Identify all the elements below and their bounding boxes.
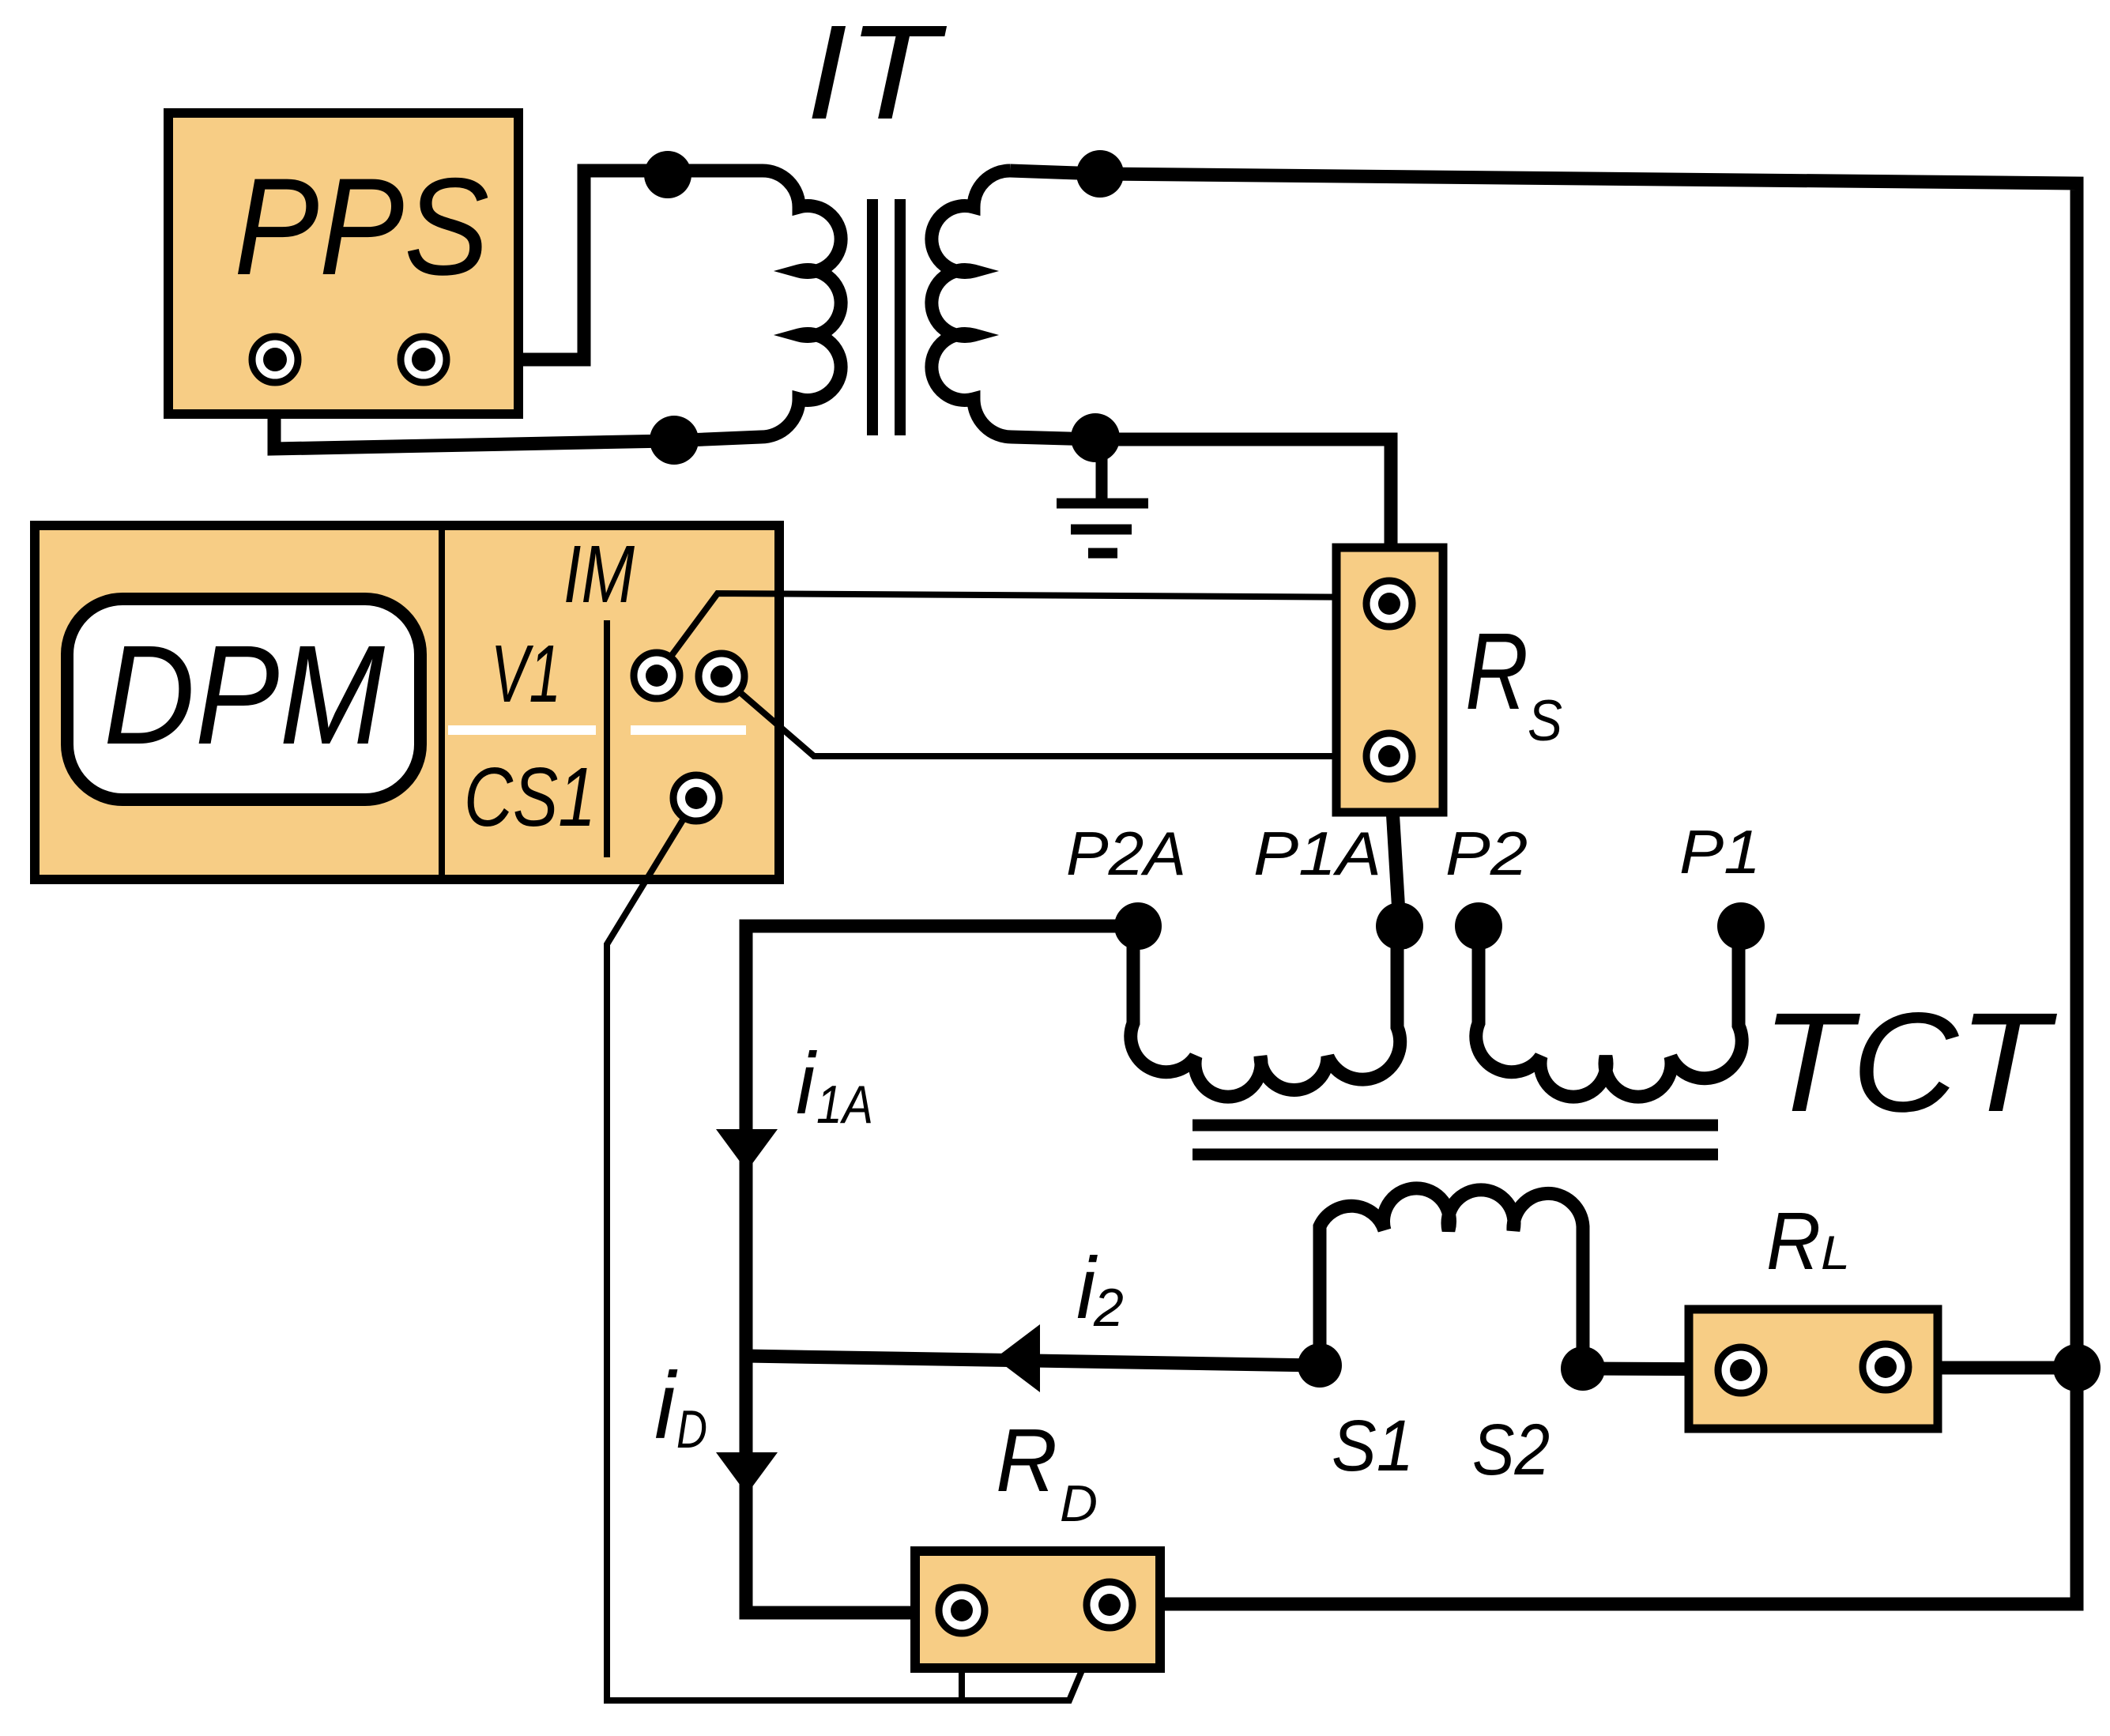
svg-text:S1: S1 xyxy=(1332,1406,1414,1486)
transformer TCT primary coil B (P2-P1) xyxy=(1476,926,1742,1097)
junction top right xyxy=(1076,150,1124,198)
transformer IT secondary coil and wire to RS xyxy=(932,171,1391,604)
terminal PPS right xyxy=(401,337,446,382)
arrow i1A xyxy=(716,1129,778,1171)
label i1A xyxy=(796,1035,873,1135)
transformer TCT core xyxy=(1193,1125,1718,1154)
junction top left xyxy=(644,151,691,198)
wire P2A to left vertical to RD left terminal xyxy=(746,926,1138,1613)
terminal RD right xyxy=(1087,1582,1132,1628)
arrow i2 xyxy=(995,1324,1040,1392)
meter DPM box xyxy=(35,525,779,879)
svg-text:P2A: P2A xyxy=(1066,819,1186,888)
node P2 xyxy=(1455,902,1502,950)
terminal PPS left xyxy=(252,337,298,382)
svg-text:P1: P1 xyxy=(1679,817,1761,887)
label RL xyxy=(1766,1196,1850,1286)
wire i2: S1 to left vertical xyxy=(746,1356,1320,1365)
svg-text:S: S xyxy=(1528,689,1562,753)
svg-text:R: R xyxy=(1766,1196,1821,1286)
power supply PPS xyxy=(168,113,518,414)
wire RS to P1A xyxy=(1389,756,1400,926)
junction IT secondary bottom xyxy=(1071,413,1120,462)
junction bottom left xyxy=(650,416,699,465)
svg-text:DPM: DPM xyxy=(104,616,386,774)
svg-text:P1A: P1A xyxy=(1253,819,1381,888)
svg-text:S2: S2 xyxy=(1472,1410,1550,1490)
svg-text:i: i xyxy=(654,1353,678,1459)
label RD xyxy=(996,1410,1098,1532)
wire IM sense (thin) xyxy=(657,593,1389,676)
svg-text:CS1: CS1 xyxy=(464,751,596,844)
terminal RS bottom xyxy=(1366,733,1412,779)
arrow iD xyxy=(716,1452,778,1494)
node P1 xyxy=(1717,902,1765,950)
terminal RL left xyxy=(1718,1347,1764,1393)
transformer TCT primary coil A (P2A-P1A) xyxy=(1131,926,1400,1097)
resistor RS xyxy=(1336,548,1443,812)
svg-text:L: L xyxy=(1821,1226,1850,1279)
terminal DPM V1 left xyxy=(634,653,680,699)
svg-text:1A: 1A xyxy=(816,1075,873,1135)
svg-text:PPS: PPS xyxy=(234,150,489,304)
label iD xyxy=(654,1353,707,1459)
svg-text:TCT: TCT xyxy=(1761,983,2057,1141)
label i2 xyxy=(1076,1240,1124,1338)
transformer IT core xyxy=(872,199,900,435)
svg-text:D: D xyxy=(676,1399,707,1459)
node S1 xyxy=(1298,1343,1342,1388)
wire RL to right edge xyxy=(1886,1361,2077,1375)
svg-text:2: 2 xyxy=(1093,1278,1124,1338)
DPM display xyxy=(67,599,420,800)
ground xyxy=(1057,439,1148,553)
svg-text:IM: IM xyxy=(563,529,635,619)
terminal RD left xyxy=(939,1587,985,1633)
svg-text:IT: IT xyxy=(806,0,947,148)
svg-text:R: R xyxy=(996,1410,1057,1510)
transformer TCT secondary coil xyxy=(1320,1188,1583,1365)
svg-text:i: i xyxy=(796,1035,817,1132)
wire CS1 sense (thin) xyxy=(607,798,1110,1700)
resistor RL xyxy=(1689,1309,1938,1429)
svg-text:R: R xyxy=(1465,611,1528,732)
label RS xyxy=(1465,611,1562,753)
node P1A xyxy=(1376,902,1423,950)
terminal RS top xyxy=(1366,581,1412,627)
svg-text:V1: V1 xyxy=(491,628,561,719)
terminal DPM CS1 xyxy=(673,775,719,821)
wire top: IT secondary top to right edge down to RD xyxy=(1010,171,2077,1604)
node right edge junction xyxy=(2053,1344,2101,1391)
node S2 xyxy=(1561,1346,1605,1391)
resistor RD xyxy=(915,1551,1160,1668)
wire RD left terminal sense stub (thin) xyxy=(959,1610,965,1700)
svg-text:D: D xyxy=(1060,1474,1098,1532)
wire primary circuit: PPS right terminal to IT primary to PPS left terminal xyxy=(274,171,841,449)
wire V1 sense (thin) xyxy=(722,676,1389,756)
terminal DPM V1 right xyxy=(699,653,744,699)
node P2A xyxy=(1114,902,1162,950)
wire S2 to RL xyxy=(1583,1369,1741,1369)
svg-text:P2: P2 xyxy=(1445,819,1528,888)
terminal RL right xyxy=(1863,1344,1908,1390)
